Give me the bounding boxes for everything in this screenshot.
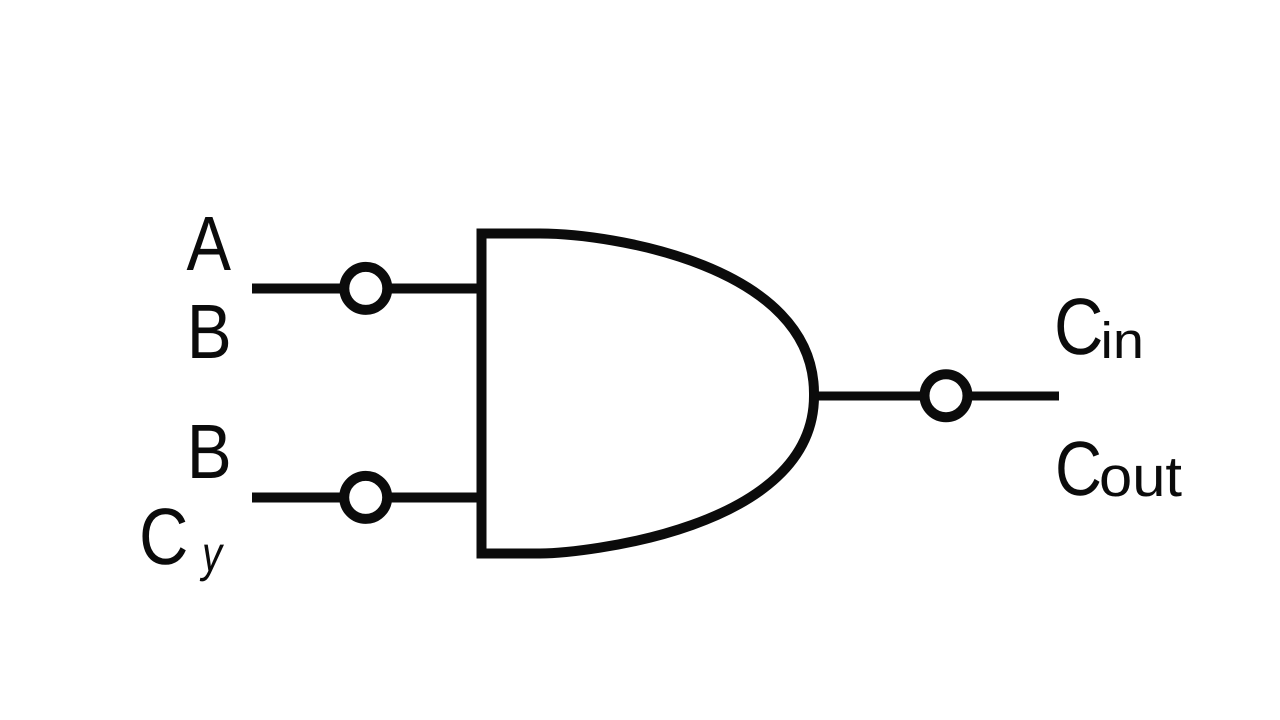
svg-text:B: B — [187, 409, 232, 495]
bubble on input A/B wire — [344, 267, 387, 310]
svg-text:C: C — [1055, 426, 1102, 512]
svg-text:C: C — [139, 492, 188, 581]
svg-text:A: A — [187, 201, 232, 287]
bubble on output wire — [925, 374, 968, 417]
wire: input B/Cy to gate — [252, 493, 478, 503]
svg-text:C: C — [1054, 282, 1103, 371]
label y subscript of C — [200, 545, 224, 582]
wire: gate output to Cin/Cout — [810, 392, 1059, 401]
svg-text:in: in — [1101, 312, 1145, 369]
svg-text:B: B — [187, 289, 232, 375]
wire: input A/B to gate — [252, 284, 478, 294]
svg-text:out: out — [1099, 445, 1182, 509]
AND gate body — [482, 234, 815, 554]
bubble on input B/Cy wire — [344, 476, 387, 519]
